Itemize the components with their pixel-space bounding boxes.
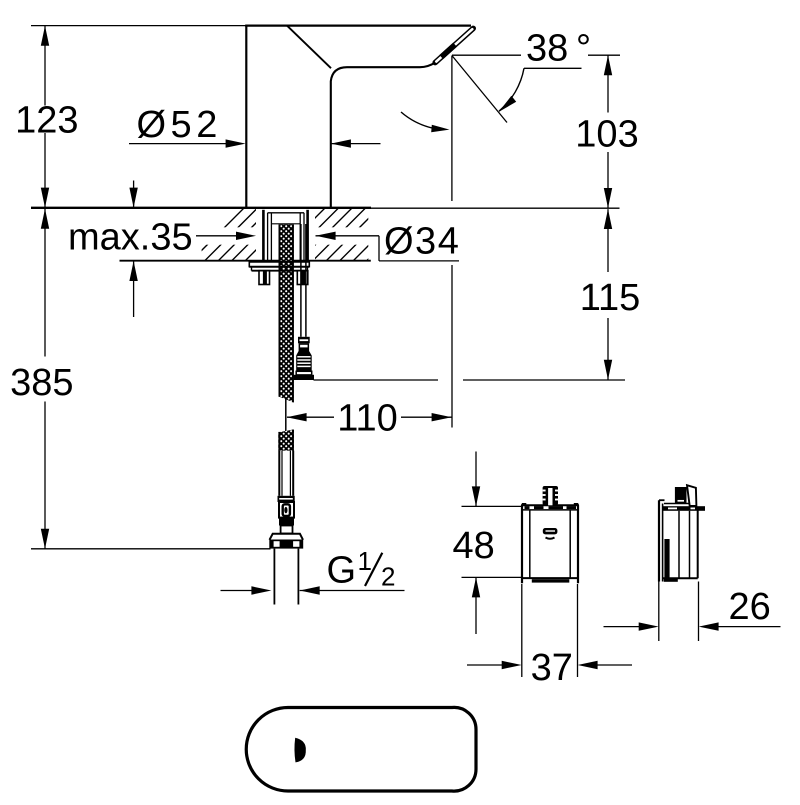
svg-text:103: 103 — [575, 113, 638, 155]
svg-text:Ø34: Ø34 — [384, 220, 460, 262]
svg-text:26: 26 — [729, 586, 771, 628]
svg-text:G: G — [327, 550, 357, 592]
svg-text:max.35: max.35 — [68, 217, 193, 259]
svg-text:110: 110 — [337, 397, 398, 439]
svg-text:385: 385 — [10, 362, 73, 404]
svg-text:48: 48 — [453, 525, 495, 567]
svg-text:Ø52: Ø52 — [137, 104, 222, 146]
svg-text:115: 115 — [580, 277, 641, 319]
svg-text:37: 37 — [531, 647, 573, 689]
svg-text:38 °: 38 ° — [526, 28, 591, 70]
svg-text:2: 2 — [381, 562, 395, 592]
svg-text:1: 1 — [358, 546, 372, 576]
svg-text:123: 123 — [15, 99, 78, 141]
